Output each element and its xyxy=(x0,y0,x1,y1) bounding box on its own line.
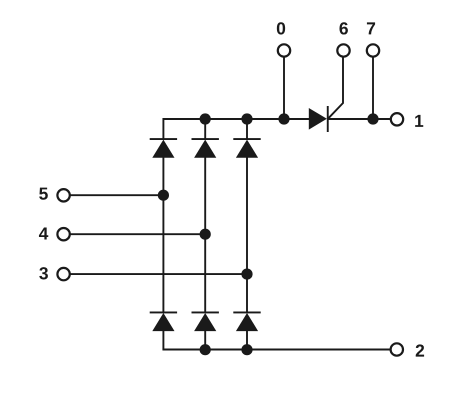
wire: phase line from terminal 4 to column 2 xyxy=(71,233,206,235)
wire: phase column 2 upper segment (rail to D3 cathode bar) xyxy=(204,119,206,139)
wire: phase column 1 lower segment (D2 anode to bottom rail) xyxy=(162,331,164,350)
pin label 5 xyxy=(39,188,48,200)
junction dot: terminal 7 / cathode node xyxy=(367,113,378,124)
terminal 5 (open circle) xyxy=(57,189,69,201)
wire: phase column 1 middle segment (D1 anode to D2 cathode bar) xyxy=(162,158,164,313)
junction dot: column 3 / bottom rail xyxy=(241,344,252,355)
pin label 1 xyxy=(415,115,423,127)
terminal 0 (open circle) xyxy=(278,44,290,56)
terminal 6 (open circle) xyxy=(337,44,349,56)
junction dot: column 2 / bottom rail xyxy=(200,344,211,355)
junction dot: terminal 4 / column 2 xyxy=(200,229,211,240)
junction dot: terminal 0 / top rail xyxy=(278,113,289,124)
diode D6 (lower, phase column 3) xyxy=(233,312,260,332)
wire: phase column 2 lower segment (D4 anode to bottom rail) xyxy=(204,331,206,350)
pin label 4 xyxy=(39,228,48,240)
diode D2 (lower, phase column 1) xyxy=(150,312,177,332)
wire: phase line from terminal 5 to column 1 xyxy=(71,194,164,196)
wire: phase line from terminal 3 to column 3 xyxy=(71,273,248,275)
terminal 1 (open circle) xyxy=(391,113,403,125)
pin label 7 xyxy=(367,22,375,34)
junction dot: column 2 / top rail xyxy=(200,113,211,124)
terminal 2 (open circle) xyxy=(391,343,403,355)
terminal 7 (open circle) xyxy=(367,44,379,56)
junction dot: terminal 5 / column 1 xyxy=(158,190,169,201)
pin label 2 xyxy=(416,344,424,356)
diode D1 (upper, phase column 1) xyxy=(150,138,177,158)
pin label 6 xyxy=(339,22,347,34)
wire: top positive rail from bridge corner to thyristor anode xyxy=(163,118,310,120)
terminal 3 (open circle) xyxy=(57,268,69,280)
wire: phase column 2 middle segment (D3 anode to D4 cathode bar) xyxy=(204,158,206,313)
wire: phase column 3 middle segment (D5 anode to D6 cathode bar) xyxy=(246,158,248,313)
wire: terminal 0 lead down to positive rail xyxy=(283,57,285,119)
thyristor SCR (anode left, cathode right, gate up to terminal 6) xyxy=(309,106,329,132)
wire: bottom negative rail to terminal 2 xyxy=(163,349,390,350)
pin label 0 xyxy=(277,22,285,34)
wire: terminal 7 lead down to cathode node xyxy=(372,57,374,119)
diode D4 (lower, phase column 2) xyxy=(192,312,219,332)
junction dot: terminal 3 / column 3 xyxy=(241,269,252,280)
diode D5 (upper, phase column 3) xyxy=(233,138,260,158)
wire: phase column 1 upper segment (rail to D1 cathode bar) xyxy=(162,118,164,139)
terminal 4 (open circle) xyxy=(57,228,69,240)
wire: thyristor cathode to terminal 1 xyxy=(329,118,391,120)
wire: thyristor gate lead to terminal 6 xyxy=(328,57,343,118)
pin label 3 xyxy=(39,267,48,279)
wire: phase column 3 upper segment (rail to D5 cathode bar) xyxy=(246,119,248,139)
wire: phase column 3 lower segment (D6 anode to bottom rail) xyxy=(246,331,248,350)
diode D3 (upper, phase column 2) xyxy=(192,138,219,158)
junction dot: column 3 / top rail xyxy=(241,113,252,124)
